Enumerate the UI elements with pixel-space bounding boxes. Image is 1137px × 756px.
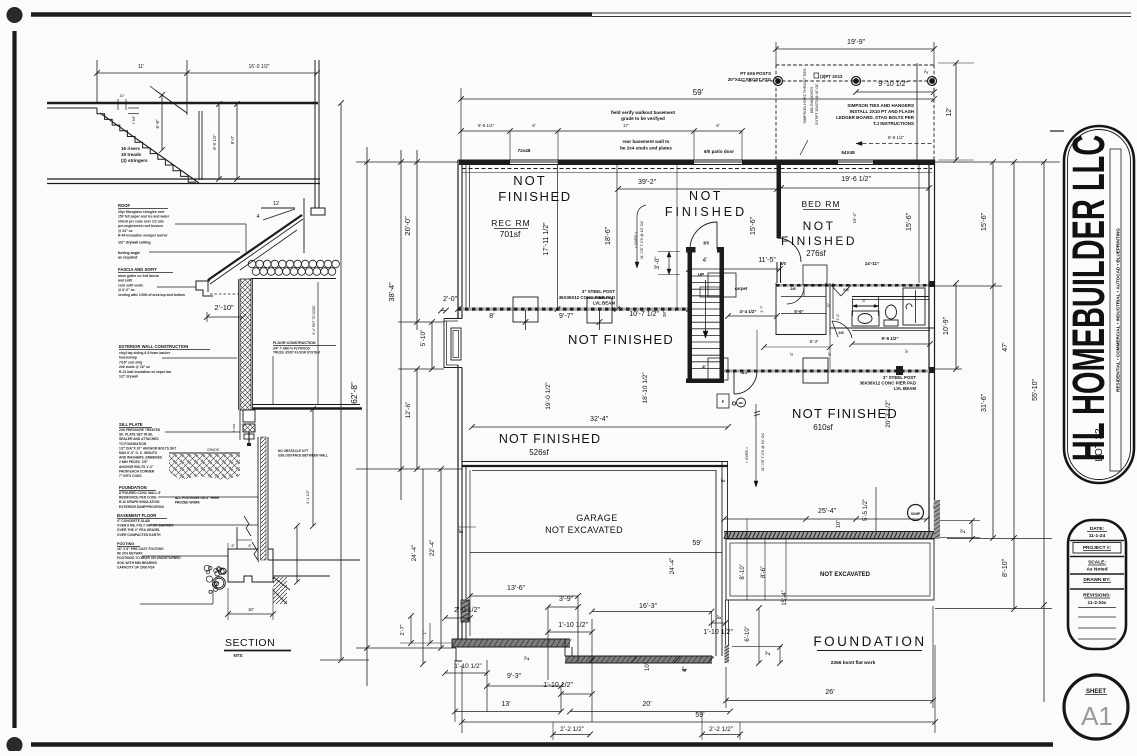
svg-text:ALL FOOTINGS ON 4” HIGH: ALL FOOTINGS ON 4” HIGH	[175, 496, 220, 500]
svg-text:1/2” drywall: 1/2” drywall	[119, 375, 138, 379]
svg-text:ROOF: ROOF	[118, 203, 131, 208]
svg-text:as required: as required	[118, 256, 137, 260]
svg-text:EXTERIOR WALL CONSTRUCTION: EXTERIOR WALL CONSTRUCTION	[119, 344, 188, 349]
svg-text:8’: 8’	[489, 313, 495, 320]
section: 4ft-1half right dim	[296, 526, 298, 582]
stairwell: bottom landing rect	[708, 358, 728, 380]
svg-text:2’-0”: 2’-0”	[443, 296, 458, 303]
wall: north wall window right	[838, 161, 873, 163]
svg-text:15’-6”: 15’-6”	[750, 216, 757, 235]
svg-text:vinyl lap siding 6-9 foam bac: vinyl lap siding 6-9 foam backer	[119, 351, 171, 355]
svg-text:10’: 10’	[645, 663, 651, 671]
footing detail: drain tile leader	[140, 603, 213, 605]
svg-text:venting attic 1/300 of area to: venting attic 1/300 of area top and bott…	[118, 293, 185, 297]
water heater WH circle	[737, 398, 746, 407]
plan east: 55ft-10 dim line	[1043, 162, 1045, 702]
svg-text:7” INTO CONC: 7” INTO CONC	[119, 474, 142, 478]
svg-text:18’-10 1/2”: 18’-10 1/2”	[642, 372, 649, 403]
svg-text:OVER 6 MIL POLY VAPOR BARRIER: OVER 6 MIL POLY VAPOR BARRIER	[117, 524, 174, 528]
svg-text:6’: 6’	[716, 123, 719, 128]
svg-text:FROZED WORK: FROZED WORK	[175, 501, 201, 505]
svg-text:shield per code over 1/2 osb: shield per code over 1/2 osb	[118, 219, 164, 223]
svg-text:furring angle: furring angle	[118, 251, 140, 255]
svg-text:ANCHOR BOLTS 1’-0”: ANCHOR BOLTS 1’-0”	[119, 465, 154, 469]
plan: interior dim line 17ft-11half	[557, 165, 559, 310]
svg-text:10’-9”: 10’-9”	[943, 316, 950, 335]
svg-text:NOT EXCAVATED: NOT EXCAVATED	[820, 572, 871, 578]
svg-text:20’-3 1/2”: 20’-3 1/2”	[885, 400, 892, 427]
svg-text:9’-9 1/2”: 9’-9 1/2”	[881, 336, 898, 341]
plan left dim: 20ft-0 line	[416, 150, 418, 330]
wall section: leader to wall	[162, 357, 237, 359]
svg-text:LOT 32: LOT 32	[1094, 428, 1105, 462]
svg-text:20”X42” FROST FTG: 20”X42” FROST FTG	[728, 77, 772, 82]
svg-text:housewrap: housewrap	[119, 356, 137, 360]
svg-text:11': 11'	[138, 64, 144, 70]
stair detail: 6ft-8in vertical dim	[161, 95, 163, 150]
svg-text:6’-6 1/2”: 6’-6 1/2”	[478, 123, 495, 128]
stairwell: landing rect right top	[708, 273, 736, 297]
svg-text:REVISIONS:: REVISIONS:	[1083, 593, 1111, 599]
wall: interior dashed stud wall line	[462, 168, 932, 170]
wall: west wall bottom hatched pier	[461, 600, 469, 622]
stair detail: mid wall double line	[198, 111, 200, 180]
svg-text:39’-2”: 39’-2”	[638, 179, 657, 186]
svg-text:RESIDENTIAL • COMMERCIAL • IND: RESIDENTIAL • COMMERCIAL • INDUSTRIAL • …	[1116, 228, 1121, 392]
svg-text:1’-10 1/2”: 1’-10 1/2”	[543, 682, 573, 689]
svg-text:72x48: 72x48	[518, 148, 531, 153]
wall section: foundation wall strip	[257, 437, 259, 560]
svg-text:@ 24” oc: @ 24” oc	[118, 229, 133, 233]
svg-text:2x6 studs @ 16” oc: 2x6 studs @ 16” oc	[119, 365, 150, 369]
svg-text:2’-7”: 2’-7”	[400, 624, 406, 635]
svg-text:1’: 1’	[422, 631, 427, 635]
svg-text:6’-10”: 6’-10”	[745, 626, 751, 641]
strip: not excavated outline double rect	[726, 539, 934, 600]
stairwell: door arc top	[690, 222, 717, 249]
beam: west lvl beam line	[458, 308, 689, 311]
info box: SCALE field	[1070, 556, 1124, 558]
sheet border: bottom-left corner dot	[7, 738, 22, 753]
stair detail: right wall footing block	[311, 208, 325, 215]
title block: outer stadium HL HOMEBUILDER	[1064, 126, 1134, 483]
svg-text:4” CONCRETE SLAB: 4” CONCRETE SLAB	[117, 519, 150, 523]
plan left dim: 24ft-4 line	[422, 469, 424, 664]
svg-text:2X6 PRESSURE TREATED: 2X6 PRESSURE TREATED	[119, 428, 161, 432]
svg-text:8’-10”: 8’-10”	[1002, 558, 1009, 577]
svg-text:< OVER >: < OVER >	[634, 232, 638, 248]
wall: bedroom west wall	[776, 165, 778, 238]
svg-text:FROM EACH CORNER: FROM EACH CORNER	[119, 469, 155, 473]
svg-text:2’: 2’	[961, 529, 967, 534]
svg-text:5’: 5’	[826, 303, 831, 307]
svg-text:12: 12	[273, 201, 279, 207]
svg-text:be 2x4 studs and plates: be 2x4 studs and plates	[620, 146, 672, 151]
roof detail: ceiling insulation circle rows	[248, 260, 256, 268]
svg-text:PROJECT #:: PROJECT #:	[1083, 545, 1112, 551]
svg-text:R-44 insulation w/vapor barrie: R-44 insulation w/vapor barrier	[118, 234, 168, 238]
deck: post left	[774, 77, 783, 86]
svg-text:10”: 10”	[836, 520, 842, 528]
svg-text:17’-11 1/2”: 17’-11 1/2”	[543, 222, 550, 256]
svg-text:4’: 4’	[789, 352, 794, 356]
wall: closet east wall	[829, 283, 831, 335]
svg-text:5’-10”: 5’-10”	[420, 330, 427, 347]
svg-text:NOT: NOT	[689, 189, 723, 203]
svg-text:AND WASHERS. EMBEDED: AND WASHERS. EMBEDED	[119, 456, 163, 460]
svg-text:SILL PLATE: SILL PLATE	[119, 422, 143, 427]
svg-text:FOOTING: FOOTING	[117, 542, 134, 546]
svg-text:TO FOUNDATION: TO FOUNDATION	[119, 442, 147, 446]
footing detail: 8in dims above footing	[227, 543, 229, 549]
svg-text:3” STEEL POST: 3” STEEL POST	[582, 289, 615, 294]
svg-text:7/16” osb shtg: 7/16” osb shtg	[119, 360, 142, 364]
wall: garage north wall	[462, 461, 728, 463]
svg-text:14’-11”: 14’-11”	[865, 261, 879, 266]
wall: garage front step verticals	[564, 639, 566, 656]
strip: west edge wall down to garage front wall	[725, 600, 727, 663]
plan left dim: 12ft-6 line	[416, 369, 418, 469]
svg-text:NOT: NOT	[513, 173, 546, 188]
svg-text:and sofit: and sofit	[118, 279, 133, 283]
svg-text:2/6: 2/6	[790, 286, 796, 291]
svg-text:@ 6’-0” oc: @ 6’-0” oc	[118, 288, 135, 292]
wall: garage front wall lower band (hatched)	[565, 656, 712, 663]
roof detail: leader line to roof	[175, 223, 246, 225]
wall: east exterior wall	[928, 160, 930, 539]
stairwell: top wall segments and door opening	[686, 247, 696, 253]
wall section: rim joist and sill detail	[243, 410, 255, 422]
svg-text:LVL BEAM: LVL BEAM	[894, 386, 916, 391]
svg-text:R-21 batt insulation w/ vapor: R-21 batt insulation w/ vapor bar	[119, 370, 172, 374]
svg-text:R-10 DRAPE INSULATION: R-10 DRAPE INSULATION	[119, 500, 160, 504]
svg-text:4: 4	[256, 214, 259, 220]
sheet border: left edge	[12, 31, 16, 728]
plan left dim: 5ft-10 line	[431, 322, 433, 369]
stair detail: right wall double line	[314, 60, 316, 208]
stair detail: stringer diagonal	[100, 113, 199, 183]
svg-text:25’-4”: 25’-4”	[818, 508, 837, 515]
svg-text:2 MIN PECES. 7/8”: 2 MIN PECES. 7/8”	[119, 460, 148, 464]
svg-text:field verify walkout basement: field verify walkout basement	[611, 110, 676, 115]
svg-text:3/0: 3/0	[703, 241, 709, 246]
svg-text:4’: 4’	[703, 258, 708, 264]
svg-text:USE DISTANCE BETWEEN WALL: USE DISTANCE BETWEEN WALL	[278, 453, 328, 457]
svg-text:6/0 patio door: 6/0 patio door	[704, 149, 734, 154]
sump pit circle	[908, 505, 924, 521]
svg-text:16 risers: 16 risers	[121, 146, 140, 151]
svg-text:MAX 6’-0” O. C. W/NUTS: MAX 6’-0” O. C. W/NUTS	[119, 451, 158, 455]
svg-text:8’-0”: 8’-0”	[230, 135, 235, 144]
roof detail: ceiling line	[251, 278, 336, 280]
svg-text:3” STEEL POST: 3” STEEL POST	[883, 375, 916, 380]
roof detail: soffit dashed line	[210, 293, 238, 295]
svg-text:2’-0 1/2”: 2’-0 1/2”	[454, 607, 480, 614]
svg-text:carpet: carpet	[735, 286, 748, 291]
deck: dashed outline	[776, 65, 934, 160]
svg-text:38’-4”: 38’-4”	[387, 282, 396, 302]
beam: steel post pad west 1	[513, 297, 538, 322]
sheet border: top thin double segment	[592, 12, 1131, 14]
wall: north exterior wall	[458, 159, 935, 161]
footing detail: gravel and drain tile circles	[212, 583, 216, 587]
svg-text:11’-5”: 11’-5”	[758, 257, 776, 264]
svg-text:701sf: 701sf	[500, 229, 521, 239]
svg-text:31'-7/8” TJI’S @ 16” OC: 31'-7/8” TJI’S @ 16” OC	[640, 220, 644, 259]
svg-text:3’-0”: 3’-0”	[654, 256, 661, 269]
svg-text:19’-9”: 19’-9”	[847, 39, 866, 46]
svg-text:PT 6X6 POSTS: PT 6X6 POSTS	[740, 71, 771, 76]
svg-text:8’-10”: 8’-10”	[740, 564, 746, 579]
svg-text:3/0: 3/0	[780, 261, 786, 266]
svg-text:pre-engineered roof trusses: pre-engineered roof trusses	[118, 224, 163, 228]
svg-text:8”: 8”	[231, 544, 234, 548]
svg-text:2’-2 1/2”: 2’-2 1/2”	[709, 726, 733, 733]
svg-text:NOT FINISHED: NOT FINISHED	[792, 406, 898, 421]
svg-text:59’: 59’	[692, 540, 702, 547]
wall section: main floor line	[252, 404, 360, 406]
stair detail: lower floor double line	[47, 178, 320, 180]
info box: blank revision lines	[1078, 616, 1116, 618]
svg-text:EXT/PT JOISTS @ 16” OC: EXT/PT JOISTS @ 16” OC	[815, 83, 819, 124]
svg-text:cont sofit vents: cont sofit vents	[118, 283, 143, 287]
svg-text:SCALE:: SCALE:	[1088, 560, 1106, 566]
svg-text:INSTALL 2X10 PT AND FLASH: INSTALL 2X10 PT AND FLASH	[850, 109, 914, 114]
plan left dim: 22ft-4 line	[440, 469, 442, 648]
info box: REVISIONS field	[1070, 588, 1124, 590]
svg-text:10”: 10”	[119, 94, 125, 98]
beam: pier pad east	[803, 358, 828, 383]
furnace unit F	[717, 394, 729, 408]
svg-text:59': 59'	[693, 88, 704, 97]
plan top: 59ft dimension line	[460, 88, 462, 160]
plan top: sub dimension row	[461, 130, 742, 132]
svg-text:15’-4”: 15’-4”	[782, 590, 788, 605]
svg-text:2/6: 2/6	[838, 330, 844, 335]
wall: garage front wall upper band (hatched)	[452, 639, 570, 647]
svg-text:12’-6”: 12’-6”	[405, 402, 412, 419]
svg-text:FOUNDATION: FOUNDATION	[119, 485, 147, 490]
stair detail: 8ft-0 vertical dim	[236, 104, 238, 179]
wall: garage west wall	[461, 461, 463, 640]
svg-text:BED RM: BED RM	[801, 199, 840, 209]
svg-text:1’-10 1/2”: 1’-10 1/2”	[703, 629, 733, 636]
svg-text:6’-8”: 6’-8”	[155, 119, 160, 129]
svg-text:rear basement wall to: rear basement wall to	[623, 139, 670, 144]
footing detail: 18in dim	[227, 588, 229, 620]
svg-text:SECTION: SECTION	[225, 637, 275, 649]
stair detail: top dimension line 11ft and 16ft-0half	[96, 60, 98, 103]
plan: hall boundary extension line	[676, 165, 678, 308]
deck: 12ft right dim	[938, 62, 974, 64]
garage: corner step bottom-left	[452, 639, 462, 661]
wall: north wall window 72x48	[510, 161, 558, 163]
svg-text:8”: 8”	[721, 477, 727, 482]
svg-text:7 3/4”: 7 3/4”	[132, 116, 136, 125]
svg-text:4’-2”: 4’-2”	[836, 313, 840, 321]
svg-text:GRADE: GRADE	[207, 448, 220, 452]
closet: outline and shelves	[775, 283, 777, 335]
svg-text:9’-7”: 9’-7”	[559, 313, 574, 320]
plan east: extension lines	[935, 161, 1060, 163]
wall: bath north wall	[852, 296, 929, 298]
svg-text:NO OBSTACLE 8 FT: NO OBSTACLE 8 FT	[278, 449, 308, 453]
wall: garage east wall	[715, 470, 717, 656]
svg-text:5’-5 1/2”: 5’-5 1/2”	[863, 499, 869, 521]
svg-text:8’-9 1/2”: 8’-9 1/2”	[888, 135, 905, 140]
svg-text:13’-6”: 13’-6”	[507, 585, 526, 592]
svg-text:4” KIB: 4” KIB	[232, 424, 236, 432]
svg-text:31’-6”: 31’-6”	[981, 393, 988, 412]
svg-text:1/2” drywall ceiling: 1/2” drywall ceiling	[118, 241, 151, 245]
svg-text:SUMP: SUMP	[911, 512, 921, 516]
svg-text:T.J INSTRUCTIONS: T.J INSTRUCTIONS	[873, 121, 914, 126]
plan left dim: 62ft-8 line	[366, 147, 368, 686]
svg-text:1’-10 1/2”: 1’-10 1/2”	[558, 622, 588, 629]
svg-text:< OVER >: < OVER >	[745, 447, 749, 463]
plan left dim: 2ft-7 small dim	[410, 616, 412, 643]
svg-text:1’-10 1/2”: 1’-10 1/2”	[454, 663, 481, 670]
svg-text:10’-7 1/2”: 10’-7 1/2”	[629, 311, 659, 318]
svg-text:59’: 59’	[695, 712, 705, 719]
wall section: leader footing	[142, 555, 228, 557]
svg-text:36X36X12 CONC PIER PAD: 36X36X12 CONC PIER PAD	[559, 295, 615, 300]
svg-text:4’: 4’	[827, 352, 832, 356]
svg-text:20’: 20’	[642, 701, 652, 708]
svg-text:18”: 18”	[248, 607, 255, 612]
svg-text:8’-6”: 8’-6”	[761, 566, 767, 578]
svg-text:610sf: 610sf	[813, 423, 833, 432]
svg-text:31'-7/8” TJI’S @ 16” OC: 31'-7/8” TJI’S @ 16” OC	[761, 432, 765, 471]
svg-text:NOT EXCAVATED: NOT EXCAVATED	[545, 525, 623, 535]
wall: west bay window rect	[451, 328, 461, 360]
wall section: sill anchor bolt	[248, 432, 250, 446]
info box: DRAWN BY field	[1070, 573, 1124, 575]
svg-text:LEDGER BOARD. STAG BOLTS PER: LEDGER BOARD. STAG BOLTS PER	[836, 115, 915, 120]
svg-text:47’: 47’	[1002, 342, 1009, 352]
plan: interior 15ft-6 and 15ft-4 dims	[918, 165, 920, 283]
plan east: 10ft-9 dim line	[955, 283, 957, 369]
plan east: 15ft-6 dim line	[992, 162, 994, 538]
svg-text:4’-7”: 4’-7”	[760, 305, 764, 313]
svg-text:5’-6”: 5’-6”	[794, 309, 803, 314]
footing detail: footing outline with keyway	[228, 549, 273, 582]
svg-text:SIMPSON TIES AND HANGERS: SIMPSON TIES AND HANGERS	[847, 103, 914, 108]
beam: east lvl beam line	[724, 370, 929, 373]
stair detail: upper floor line	[47, 102, 318, 105]
info box: outer stadium	[1068, 520, 1126, 649]
footing detail: slab line right of wall	[268, 559, 360, 561]
sheet border: top-left corner dot	[7, 8, 22, 23]
wall: south exterior wall of house	[724, 532, 934, 539]
svg-text:REC RM: REC RM	[491, 218, 531, 228]
svg-text:DATE:: DATE:	[1090, 526, 1105, 532]
svg-text:9’-3”: 9’-3”	[507, 673, 522, 680]
svg-text:28”: 28”	[662, 310, 667, 317]
svg-text:FOUNDATION: FOUNDATION	[813, 634, 926, 649]
svg-text:20’-0”: 20’-0”	[403, 216, 412, 236]
deck: post right	[928, 77, 937, 86]
svg-text:4’: 4’	[702, 365, 706, 371]
svg-text:(3)PT 2X12: (3)PT 2X12	[820, 74, 843, 79]
stair detail: opening diagonal line	[155, 90, 187, 113]
svg-text:15 treads: 15 treads	[121, 152, 142, 157]
svg-text:SIMPSON HORZ THRUST TIES: SIMPSON HORZ THRUST TIES	[803, 68, 807, 124]
roof detail: wall stud strip upper	[240, 279, 251, 410]
svg-text:4’-4 1/2”: 4’-4 1/2”	[739, 309, 756, 314]
svg-text:CAPACITY OF 2000 PSF: CAPACITY OF 2000 PSF	[117, 565, 155, 569]
title block: HL HOMEBUILDER LLC rotated text	[1065, 135, 1115, 461]
svg-text:4’: 4’	[682, 668, 688, 672]
svg-text:8’-4” RGT TO SDGE: 8’-4” RGT TO SDGE	[312, 305, 316, 334]
svg-text:24’-4”: 24’-4”	[669, 558, 676, 575]
svg-text:alum gutter on 2x8 fascia: alum gutter on 2x8 fascia	[118, 274, 159, 278]
svg-text:19’-0 1/2”: 19’-0 1/2”	[545, 382, 552, 409]
title block: tick mark left of stadium	[1050, 130, 1064, 132]
svg-text:As Noted: As Noted	[1086, 567, 1107, 573]
stairwell: treads	[692, 275, 720, 277]
svg-text:A1: A1	[1081, 701, 1113, 731]
plan left dim: 38ft-4 line	[400, 150, 402, 500]
svg-text:24’-4”: 24’-4”	[411, 545, 418, 562]
svg-text:19’-6 1/2”: 19’-6 1/2”	[841, 176, 871, 183]
wall section: leader sill	[165, 431, 240, 433]
svg-text:1/2” DIA”X 10” ANCHOR BOLTS SE: 1/2” DIA”X 10” ANCHOR BOLTS SET	[119, 446, 176, 450]
svg-text:FINISHED: FINISHED	[781, 234, 857, 248]
stairwell: bold east wall	[720, 247, 725, 383]
roof detail: roof slope lines	[208, 215, 302, 280]
wall section: basement slab lines	[150, 524, 258, 526]
svg-text:15’-6”: 15’-6”	[906, 212, 913, 231]
svg-text:HL HOMEBUILDER LLC: HL HOMEBUILDER LLC	[1065, 135, 1115, 461]
svg-text:3’: 3’	[862, 298, 866, 303]
title block: inner thin services box	[1110, 149, 1121, 471]
svg-text:SIL PLATE SET IN SIL: SIL PLATE SET IN SIL	[119, 433, 153, 437]
footing detail: drain tile pipe circle	[213, 577, 226, 590]
svg-text:26’: 26’	[825, 689, 835, 696]
svg-text:EXTERIOR DAMPPROOFING: EXTERIOR DAMPPROOFING	[119, 505, 164, 509]
svg-text:55’-10”: 55’-10”	[1032, 378, 1039, 400]
svg-text:8’-3”: 8’-3”	[810, 339, 819, 344]
stair detail: 8ft-0half vertical dim	[218, 104, 220, 179]
wall: southeast corner pier hatch	[934, 500, 940, 539]
bath: toilet	[886, 305, 897, 319]
svg-text:3’-9”: 3’-9”	[559, 596, 574, 603]
wall: west wall lower	[457, 365, 459, 639]
svg-text:22’-4”: 22’-4”	[429, 540, 436, 557]
svg-text:SEALER AND ATTACHED: SEALER AND ATTACHED	[119, 437, 159, 441]
section: 62ft-8 overall height dim line	[340, 103, 342, 660]
garage: interior line	[470, 552, 722, 554]
svg-text:UP: UP	[698, 272, 704, 277]
svg-text:8”: 8”	[717, 614, 723, 619]
svg-text:32’-4”: 32’-4”	[590, 416, 609, 423]
svg-text:16’-3”: 16’-3”	[639, 603, 658, 610]
svg-text:WH: WH	[739, 401, 744, 405]
svg-text:9’-10 1/2”: 9’-10 1/2”	[878, 81, 908, 88]
closet: pad rect right of door	[803, 265, 827, 285]
footing detail: wall faces to footing	[236, 527, 238, 549]
svg-text:LVL BEAM: LVL BEAM	[593, 301, 615, 306]
svg-text:OVER THE 4” PEA GRAVEL: OVER THE 4” PEA GRAVEL	[117, 528, 160, 532]
wall section: grade line and earth hatch	[169, 452, 240, 454]
plan: 3ft-0 dim near stairs	[668, 252, 670, 275]
svg-text:13’: 13’	[501, 701, 511, 708]
roof detail: fascia gutter profile	[196, 281, 213, 296]
svg-text:OVER COMPACTED EARTH: OVER COMPACTED EARTH	[117, 533, 161, 537]
wall: west jog bay	[444, 318, 462, 320]
svg-text:276sf: 276sf	[806, 249, 826, 258]
